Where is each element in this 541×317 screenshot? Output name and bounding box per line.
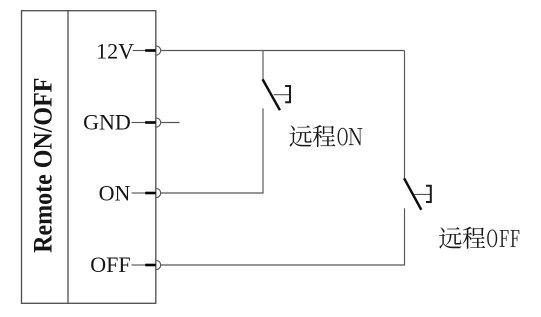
label 远程OFF : char 远	[439, 227, 461, 248]
pin ON lead	[132, 192, 147, 194]
switch S1 actuator link	[274, 94, 290, 96]
wire S1 bottom contact to ON	[161, 108, 263, 193]
connector box divider	[67, 11, 69, 304]
pin ON socket semicircle	[156, 188, 161, 197]
pin 12V socket semicircle	[156, 46, 161, 55]
wire 12V to switch S2	[404, 51, 406, 180]
wire 12V rail	[161, 50, 405, 52]
svg-text:12V: 12V	[96, 39, 134, 64]
pin GND lead	[132, 122, 147, 124]
label 远程ON : char 程	[313, 125, 336, 147]
pin OFF contact (thick)	[145, 264, 156, 267]
pin ON contact (thick)	[145, 192, 156, 195]
switch S2 blade (远程OFF)	[404, 178, 421, 210]
label 远程ON : char N	[349, 128, 363, 145]
wire GND stub	[161, 122, 180, 124]
wire S2 bottom contact to OFF	[161, 208, 405, 265]
label 远程OFF : char F	[500, 230, 509, 247]
label 远程ON : char O	[338, 128, 348, 146]
pin GND socket semicircle	[156, 118, 161, 127]
svg-text:GND: GND	[83, 109, 131, 134]
pin 12V contact (thick)	[145, 49, 156, 52]
pin 12V lead	[133, 50, 146, 52]
svg-text:OFF: OFF	[90, 252, 130, 277]
connector box outline	[22, 11, 156, 304]
label 远程OFF : char F2	[510, 230, 519, 247]
label 远程OFF : char O	[487, 230, 497, 248]
pin OFF socket semicircle	[156, 260, 161, 269]
switch S2 actuator link	[414, 193, 430, 195]
pin OFF lead	[132, 264, 147, 266]
svg-text:ON: ON	[99, 180, 131, 205]
label 远程OFF : char 程	[463, 227, 486, 249]
label 远程ON : char 远	[289, 125, 311, 146]
switch S1 actuator bracket	[285, 86, 290, 102]
wire 12V to switch S1	[262, 51, 264, 81]
switch S1 blade (远程ON)	[263, 79, 280, 110]
pin GND contact (thick)	[145, 121, 156, 124]
svg-text:Remote ON/OFF: Remote ON/OFF	[30, 78, 58, 253]
switch S2 actuator bracket	[426, 186, 431, 202]
